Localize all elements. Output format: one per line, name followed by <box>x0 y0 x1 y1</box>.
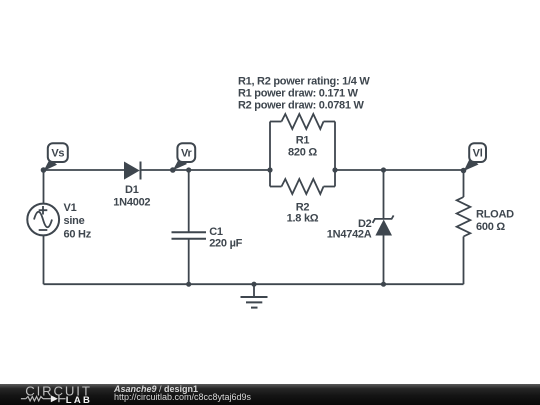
svg-text:R2 power draw: 0.0781 W: R2 power draw: 0.0781 W <box>238 100 365 112</box>
svg-text:C1: C1 <box>209 226 223 238</box>
svg-text:60 Hz: 60 Hz <box>64 228 92 240</box>
svg-text:R1, R2 power rating: 1/4 W: R1, R2 power rating: 1/4 W <box>238 76 370 88</box>
svg-text:V1: V1 <box>64 202 77 214</box>
svg-text:1N4002: 1N4002 <box>113 197 150 209</box>
svg-text:D1: D1 <box>125 184 139 196</box>
svg-text:R1: R1 <box>296 135 310 147</box>
svg-text:Vr: Vr <box>181 148 192 160</box>
svg-text:R1 power draw: 0.171 W: R1 power draw: 0.171 W <box>238 88 359 100</box>
svg-text:1.8 kΩ: 1.8 kΩ <box>287 213 319 225</box>
svg-text:RLOAD: RLOAD <box>476 209 514 221</box>
svg-text:820 Ω: 820 Ω <box>288 146 317 158</box>
svg-text:220 µF: 220 µF <box>209 238 242 250</box>
svg-text:Vs: Vs <box>51 148 64 160</box>
svg-text:LAB: LAB <box>66 395 91 405</box>
svg-text:sine: sine <box>64 215 85 227</box>
svg-text:Vl: Vl <box>473 148 483 160</box>
svg-text:600 Ω: 600 Ω <box>476 221 505 233</box>
svg-text:1N4742A: 1N4742A <box>327 229 372 241</box>
